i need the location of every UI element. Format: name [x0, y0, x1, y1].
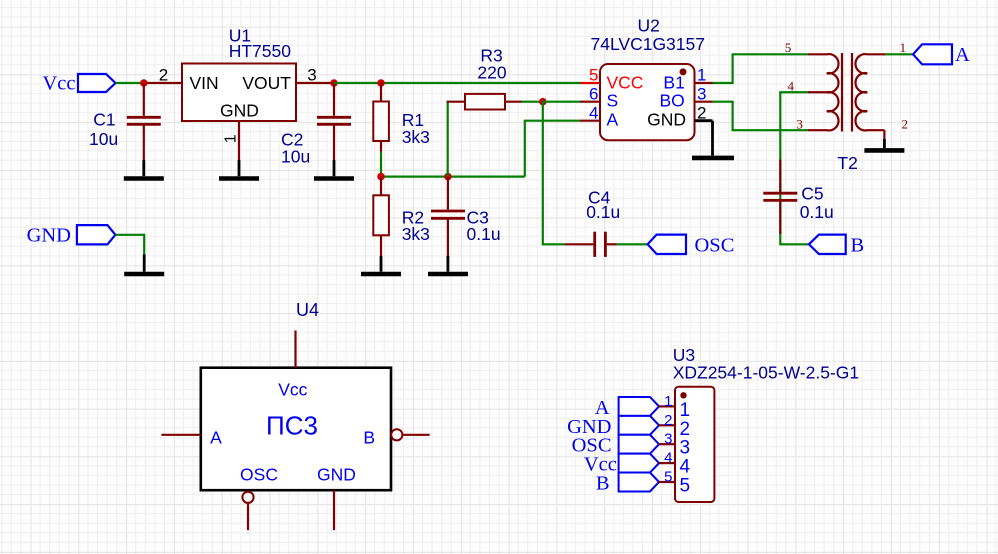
svg-text:0.1u: 0.1u: [800, 202, 834, 222]
ground C3: [428, 256, 468, 274]
svg-text:VCC: VCC: [607, 73, 644, 93]
svg-text:3: 3: [697, 85, 706, 104]
svg-text:C1: C1: [93, 109, 115, 129]
svg-text:B: B: [363, 428, 375, 448]
svg-text:Vcc: Vcc: [42, 73, 75, 95]
harness entry GND (U3 pin 2): [619, 416, 659, 435]
pin U2 4: [580, 120, 600, 122]
wire R1 bottom: [380, 152, 382, 177]
port B: [809, 235, 864, 257]
svg-text:3k3: 3k3: [402, 127, 430, 147]
resistor R3: [447, 94, 522, 110]
wire Vcc port to junction: [116, 82, 144, 84]
ground C1: [124, 160, 164, 179]
wire U2 pin 2 to ground: [711, 121, 714, 156]
svg-text:T2: T2: [837, 153, 857, 173]
wire C5 to port B: [780, 234, 809, 244]
wire U1 pin 3 VOUT: [296, 82, 334, 84]
svg-text:74LVC1G3157: 74LVC1G3157: [591, 34, 706, 54]
harness entry Vcc (U3 pin 4): [619, 454, 659, 473]
wire R3 left vertical: [447, 102, 449, 177]
pin U4 A left: [161, 434, 200, 436]
svg-text:3: 3: [680, 438, 691, 459]
node junction C3: [444, 173, 452, 181]
wire junction down to C4: [543, 102, 565, 245]
svg-text:U2: U2: [638, 16, 660, 36]
port GND: [27, 225, 116, 247]
svg-text:5: 5: [589, 65, 598, 84]
svg-text:2: 2: [680, 419, 691, 440]
svg-text:3: 3: [664, 431, 672, 448]
capacitor C1: [127, 83, 161, 160]
svg-text:5: 5: [664, 469, 672, 486]
svg-text:4: 4: [589, 104, 598, 123]
svg-text:4: 4: [664, 450, 672, 467]
svg-text:B: B: [851, 235, 865, 257]
svg-text:A: A: [607, 110, 619, 130]
svg-text:1: 1: [223, 134, 240, 143]
svg-text:6: 6: [589, 85, 598, 104]
ground GND port: [124, 255, 164, 275]
pin U3 2: [659, 424, 675, 426]
svg-text:GND: GND: [317, 465, 356, 485]
pin U2 1: [695, 82, 713, 84]
wire U2 pin 3 to T2 pin 3: [713, 102, 808, 131]
pin U3 4: [659, 462, 675, 464]
svg-text:VOUT: VOUT: [242, 73, 291, 93]
node junction VOUT/C2: [330, 79, 338, 87]
harness entry B (U3 pin 5): [619, 473, 659, 492]
capacitor C2: [317, 83, 351, 160]
resistor R1: [373, 83, 389, 152]
svg-text:BO: BO: [660, 91, 685, 111]
wire U2 pin 4 to mid rail: [525, 121, 580, 177]
op-amp U2 body 74LVC1G3157: [600, 64, 695, 140]
pin U2 3: [695, 101, 713, 103]
svg-text:2: 2: [697, 104, 706, 123]
wire junction to U1 pin 2: [144, 82, 182, 84]
svg-text:2: 2: [902, 116, 909, 131]
svg-text:2: 2: [159, 65, 168, 84]
svg-text:B1: B1: [663, 73, 684, 93]
pin U3 3: [659, 443, 675, 445]
pin U4 B right (inverted): [391, 429, 429, 440]
pin U2 5: [580, 82, 600, 84]
svg-text:A: A: [210, 428, 222, 448]
svg-text:5: 5: [680, 476, 691, 497]
svg-text:GND: GND: [27, 225, 71, 247]
ground U2: [692, 156, 734, 161]
svg-text:4: 4: [680, 457, 691, 478]
wire junction to U2 pin 6: [543, 101, 580, 103]
wire T2 pin 4: [780, 92, 807, 234]
svg-text:10u: 10u: [281, 147, 310, 167]
svg-text:GND: GND: [647, 110, 686, 130]
svg-text:1: 1: [680, 400, 691, 421]
port A: [913, 44, 970, 66]
svg-text:1: 1: [697, 65, 706, 84]
wire R3 right: [522, 101, 543, 103]
svg-text:1: 1: [664, 393, 672, 410]
wire main rail VOUT to U2 pin 5: [334, 82, 580, 84]
wire C4 to OSC port: [617, 243, 648, 245]
svg-text:10u: 10u: [89, 129, 118, 149]
node junction Vcc/C1: [140, 79, 148, 87]
svg-text:OSC: OSC: [695, 235, 735, 257]
ground C2: [314, 160, 354, 179]
wire T2 pin 1 to port A: [885, 53, 913, 55]
svg-text:VIN: VIN: [190, 73, 219, 93]
connector U3 body: [675, 387, 714, 502]
svg-text:B: B: [596, 473, 610, 495]
op-amp U1 body HT7550: [182, 64, 296, 122]
pin U1 GND lead: [238, 121, 240, 160]
ground U1: [219, 160, 259, 179]
svg-text:3: 3: [307, 65, 316, 84]
wire U2 pin 1 to T2 pin 5: [713, 54, 808, 83]
capacitor C4: [565, 232, 617, 257]
pin U3 1: [659, 405, 675, 407]
svg-text:C5: C5: [801, 183, 823, 203]
pin U4 OSC bottom (inverted): [242, 492, 253, 530]
svg-text:GND: GND: [220, 101, 259, 121]
svg-text:1: 1: [900, 40, 907, 55]
svg-text:A: A: [955, 44, 970, 66]
svg-text:OSC: OSC: [240, 465, 278, 485]
ground R2: [361, 256, 401, 274]
ground T2 pin 2: [864, 139, 904, 150]
pin U4 Vcc top: [294, 331, 296, 368]
svg-text:3: 3: [796, 116, 803, 131]
node junction R1 top: [377, 79, 385, 87]
svg-text:0.1u: 0.1u: [586, 202, 620, 222]
capacitor C3: [431, 177, 465, 256]
harness entry A (U3 pin 1): [619, 397, 659, 416]
node junction R1/R2: [377, 173, 385, 181]
capacitor C5: [763, 160, 797, 235]
svg-text:5: 5: [785, 40, 792, 55]
transformer T2: [808, 53, 886, 139]
wire mid rail R1/R2 to pin4 corner: [381, 176, 525, 178]
svg-text:U4: U4: [296, 300, 319, 320]
svg-text:ПС3: ПС3: [266, 411, 318, 441]
svg-text:4: 4: [788, 79, 795, 94]
harness entry OSC (U3 pin 3): [619, 435, 659, 454]
svg-text:0.1u: 0.1u: [467, 224, 501, 244]
port Vcc: [42, 73, 115, 95]
port OSC: [648, 235, 735, 257]
wire GND port: [115, 235, 144, 255]
pin U4 GND bottom: [333, 490, 335, 530]
node junction R3/S/C4: [539, 98, 547, 106]
svg-text:HT7550: HT7550: [229, 41, 292, 61]
svg-text:2: 2: [664, 412, 672, 429]
svg-text:Vcc: Vcc: [278, 379, 307, 399]
svg-text:3k3: 3k3: [402, 224, 430, 244]
IC U4 body: [201, 368, 391, 491]
pin U2 6: [580, 101, 600, 103]
svg-text:220: 220: [477, 62, 506, 82]
resistor R2: [373, 177, 389, 256]
pin U3 5: [659, 481, 675, 483]
svg-text:S: S: [607, 91, 619, 111]
svg-text:XDZ254-1-05-W-2.5-G1: XDZ254-1-05-W-2.5-G1: [673, 363, 859, 383]
pin U2 2: [695, 119, 713, 122]
